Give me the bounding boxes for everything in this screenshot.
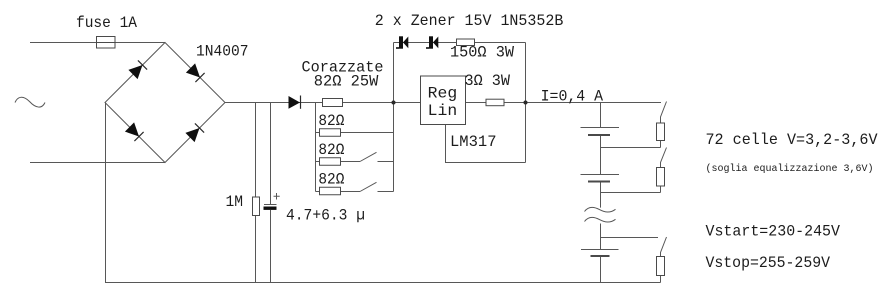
svg-text:4.7+6.3 µ: 4.7+6.3 µ — [286, 207, 365, 225]
svg-text:82Ω 25W: 82Ω 25W — [314, 73, 379, 91]
svg-text:82Ω: 82Ω — [318, 112, 344, 130]
svg-text:Lin: Lin — [428, 102, 458, 120]
svg-text:LM317: LM317 — [450, 133, 497, 151]
svg-text:Vstart=230-245V: Vstart=230-245V — [706, 223, 841, 241]
svg-text:3Ω 3W: 3Ω 3W — [465, 72, 511, 90]
svg-text:2 x Zener 15V 1N5352B: 2 x Zener 15V 1N5352B — [375, 12, 564, 30]
svg-text:(soglia equalizzazione 3,6V): (soglia equalizzazione 3,6V) — [706, 163, 874, 175]
svg-text:150Ω 3W: 150Ω 3W — [450, 44, 514, 62]
svg-text:82Ω: 82Ω — [318, 171, 344, 189]
svg-text:I=0,4 A: I=0,4 A — [541, 88, 604, 106]
svg-text:Reg: Reg — [428, 85, 458, 103]
svg-text:82Ω: 82Ω — [318, 141, 344, 159]
svg-text:72 celle V=3,2-3,6V: 72 celle V=3,2-3,6V — [706, 131, 878, 149]
svg-text:1M: 1M — [226, 193, 244, 211]
svg-text:1N4007: 1N4007 — [196, 43, 249, 61]
svg-text:fuse 1A: fuse 1A — [76, 14, 137, 32]
svg-text:Vstop=255-259V: Vstop=255-259V — [706, 254, 831, 272]
